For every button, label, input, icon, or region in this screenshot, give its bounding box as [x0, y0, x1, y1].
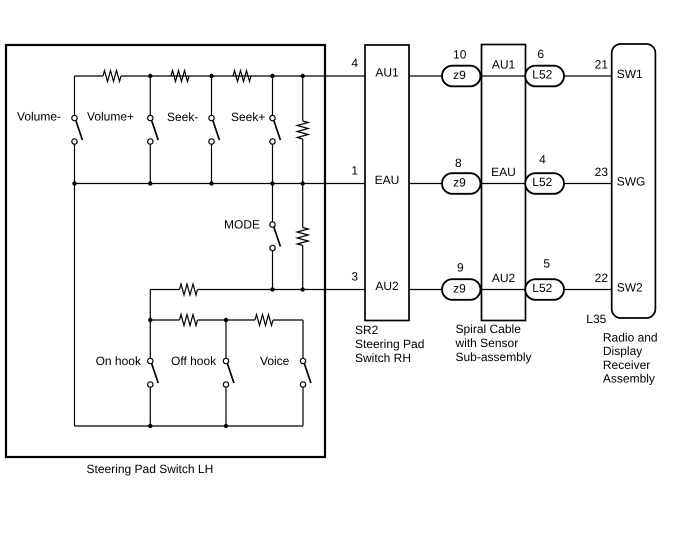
connector SR2 Steering Pad Switch RH — [365, 45, 409, 321]
wire AU1 net (top bus y=76, pin 4 to SR2) — [75, 75, 366, 77]
svg-text:AU1: AU1 — [375, 65, 399, 79]
junction dots top bus — [148, 74, 305, 78]
svg-text:Radio and: Radio and — [603, 331, 658, 345]
switch Seek+ — [270, 76, 281, 184]
switch Volume+ — [148, 76, 159, 184]
connector L52 row 2 — [525, 173, 564, 194]
resistor R7 (On hook / Off hook series) — [180, 315, 198, 326]
connector z9 row 1 — [442, 66, 481, 87]
svg-text:3: 3 — [351, 270, 358, 284]
svg-text:Volume-: Volume- — [17, 110, 61, 124]
label SR2 Steering Pad Switch RH — [355, 323, 424, 365]
resistor R3 (Seek- / Seek+ series) — [233, 71, 251, 82]
svg-text:MODE: MODE — [224, 217, 260, 231]
label Radio and Display Receiver Assembly — [603, 331, 658, 386]
svg-text:Switch RH: Switch RH — [355, 351, 411, 365]
svg-text:Seek+: Seek+ — [231, 110, 265, 124]
resistor R5 (vertical, y2-y3) — [297, 184, 308, 290]
box Spiral Cable with Sensor Sub-assembly — [482, 45, 526, 321]
svg-text:1: 1 — [351, 164, 358, 178]
switch Off hook — [223, 320, 234, 426]
switch MODE — [270, 184, 281, 290]
svg-text:SW2: SW2 — [617, 281, 643, 295]
svg-text:Seek-: Seek- — [167, 110, 198, 124]
resistor R4 (vertical, y1-y2) — [297, 76, 308, 184]
svg-text:with Sensor: with Sensor — [455, 336, 519, 350]
svg-text:Sub-assembly: Sub-assembly — [456, 350, 532, 364]
svg-text:Receiver: Receiver — [603, 358, 650, 372]
box Steering Pad Switch LH — [6, 45, 325, 457]
junction dots bottom bus — [148, 424, 228, 428]
svg-text:z9: z9 — [453, 68, 466, 82]
label Spiral Cable with Sensor Sub-assembly — [455, 322, 532, 364]
svg-text:AU2: AU2 — [492, 271, 516, 285]
svg-text:4: 4 — [351, 56, 358, 70]
svg-text:SWG: SWG — [617, 175, 646, 189]
connector L52 row 1 — [525, 66, 564, 87]
switch Volume- — [72, 76, 83, 426]
svg-text:L52: L52 — [532, 281, 552, 295]
svg-text:SR2: SR2 — [355, 323, 379, 337]
switch Seek- — [209, 76, 220, 184]
wire AU2 net (third bus y=289.5 to SR2 pin 3) — [150, 289, 365, 291]
svg-text:L52: L52 — [532, 68, 552, 82]
resistor R8 (Off hook / Voice series) — [255, 315, 273, 326]
svg-text:AU1: AU1 — [492, 58, 516, 72]
svg-text:10: 10 — [453, 48, 467, 62]
svg-text:SW1: SW1 — [617, 67, 643, 81]
svg-text:8: 8 — [455, 156, 462, 170]
svg-text:z9: z9 — [453, 282, 466, 296]
svg-text:Spiral Cable: Spiral Cable — [456, 322, 522, 336]
svg-text:EAU: EAU — [375, 173, 400, 187]
svg-text:Assembly: Assembly — [603, 372, 655, 386]
connector L52 row 3 — [525, 279, 564, 300]
connector z9 row 3 — [442, 279, 481, 300]
svg-text:9: 9 — [457, 260, 464, 274]
svg-text:5: 5 — [543, 257, 550, 271]
svg-text:Off hook: Off hook — [171, 354, 217, 368]
junction dots hook bus — [148, 318, 228, 322]
svg-text:Steering Pad: Steering Pad — [355, 337, 424, 351]
wire AU2 corner drop (x=150.3, y289.5-320) — [149, 290, 151, 321]
svg-text:6: 6 — [537, 47, 544, 61]
svg-text:Display: Display — [603, 344, 642, 358]
resistor R2 (Volume+ / Seek- series) — [171, 71, 189, 82]
svg-text:L52: L52 — [532, 175, 552, 189]
svg-text:21: 21 — [595, 57, 609, 71]
svg-text:On hook: On hook — [96, 354, 142, 368]
connector z9 row 2 — [442, 173, 481, 194]
wire EAU net (second bus y=183.5 to SR2 pin 1) — [75, 183, 366, 185]
svg-text:4: 4 — [539, 153, 546, 167]
svg-text:23: 23 — [595, 165, 609, 179]
wire hook bus (y=320) — [150, 319, 303, 321]
wire SR2 to radio, row 1 (y=76) — [409, 75, 612, 77]
svg-text:z9: z9 — [453, 176, 466, 190]
svg-text:L35: L35 — [586, 312, 606, 326]
svg-text:AU2: AU2 — [375, 279, 399, 293]
switch On hook — [148, 320, 159, 426]
svg-text:Volume+: Volume+ — [87, 110, 134, 124]
resistor R1 (Volume- / Volume+ series) — [103, 71, 121, 82]
svg-text:EAU: EAU — [491, 165, 516, 179]
resistor R6 (on AU2 net) — [180, 284, 198, 295]
junction dots AU2 bus — [270, 287, 305, 291]
svg-text:Voice: Voice — [260, 354, 290, 368]
wire SR2 to radio, row 3 (y=289.5) — [409, 289, 612, 291]
junction dots EAU bus — [72, 181, 305, 185]
box L35 Radio and Display Receiver Assembly — [612, 44, 656, 318]
svg-text:22: 22 — [595, 271, 609, 285]
svg-text:Steering Pad Switch LH: Steering Pad Switch LH — [87, 462, 214, 476]
wire SR2 to radio, row 2 (y=183.5) — [409, 183, 612, 185]
wire bottom return bus (y=426) — [75, 425, 304, 427]
switch Voice — [300, 320, 311, 426]
